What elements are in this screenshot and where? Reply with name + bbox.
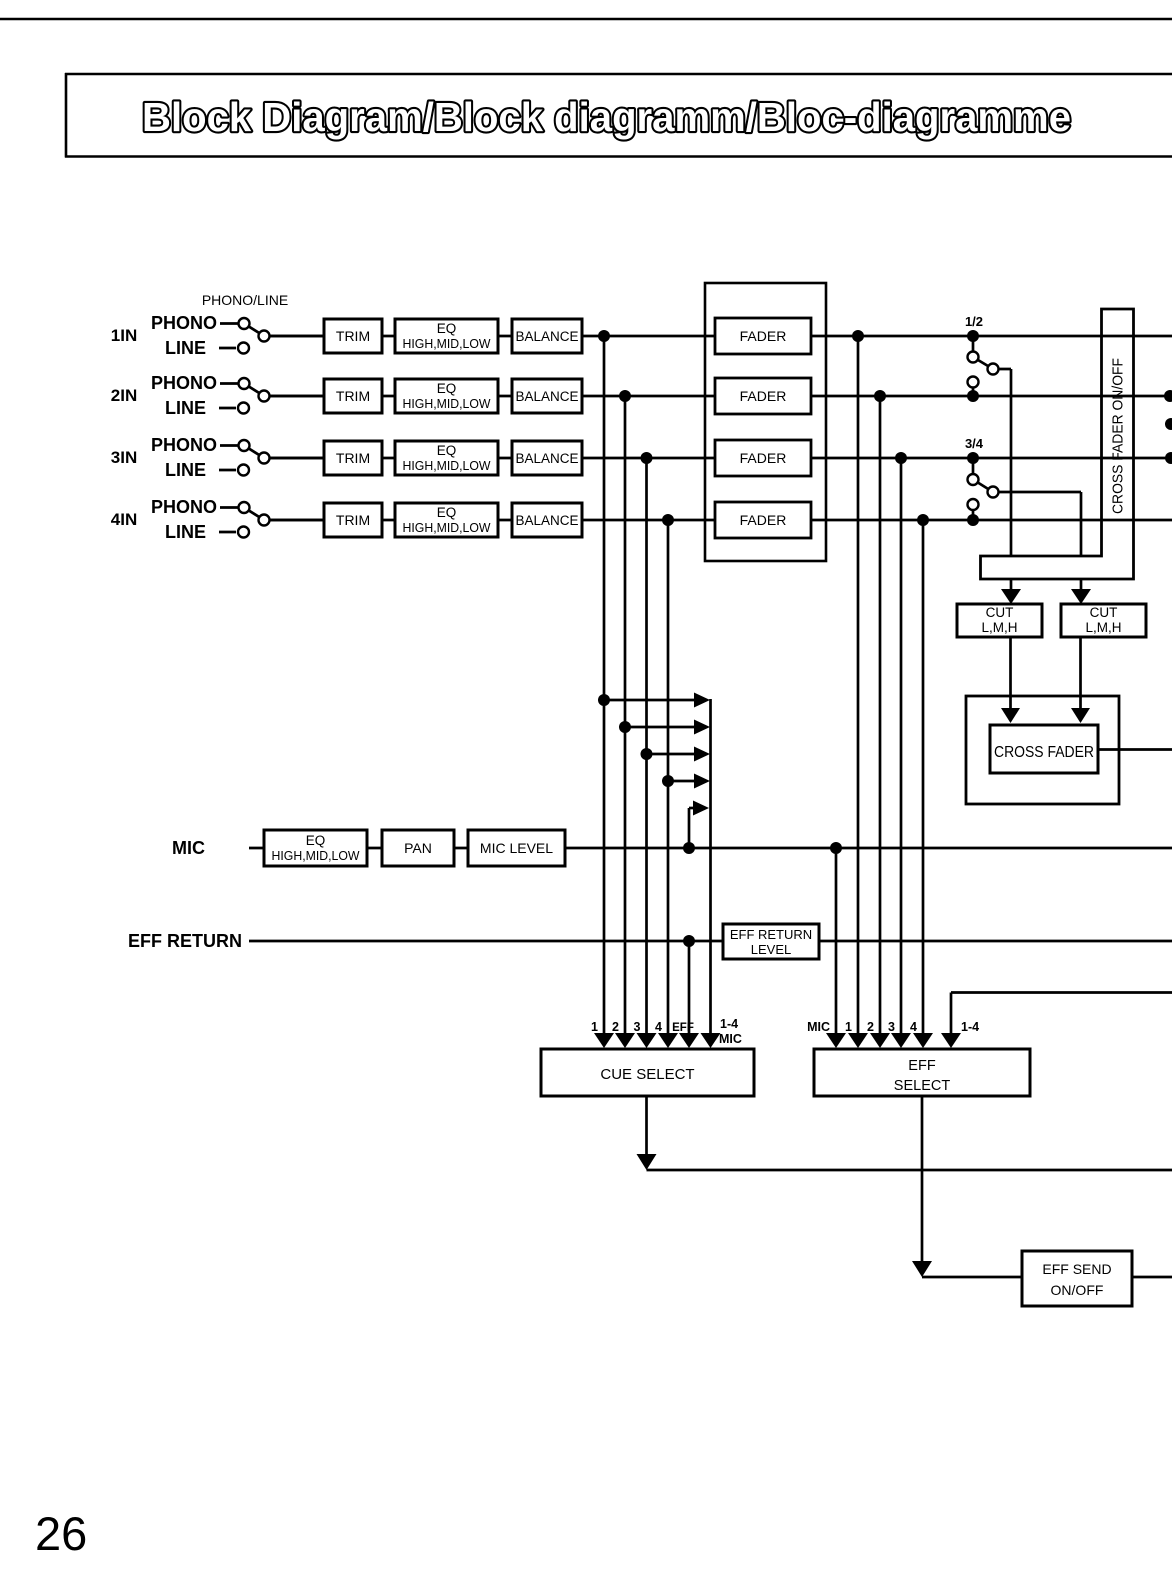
svg-text:1: 1 [845,1020,852,1034]
svg-text:PHONO/LINE: PHONO/LINE [202,292,288,308]
svg-text:PHONO: PHONO [151,373,217,393]
wire EFF RETURN [249,940,1172,943]
block EQ MIC [264,830,367,866]
block EQ 4 [395,503,498,537]
wire [269,395,324,398]
switch PHONO/LINE 4 [151,497,270,542]
pin eff MIC [807,1020,846,1048]
wire cue mix tap 4 [668,780,696,783]
svg-text:PHONO: PHONO [151,313,217,333]
pin cue EFF [672,1022,699,1048]
svg-text:SELECT: SELECT [894,1078,951,1094]
svg-text:FADER: FADER [740,328,787,344]
svg-text:HIGH,MID,LOW: HIGH,MID,LOW [403,458,492,473]
svg-text:4IN: 4IN [111,510,137,529]
switch 3/4 [965,436,1081,557]
wire cross fader out [1098,748,1172,751]
svg-text:1/2: 1/2 [965,314,983,329]
block CUE SELECT [541,1049,754,1096]
block EQ 1 [395,319,498,353]
svg-text:3: 3 [634,1020,641,1034]
wire MIC tap [835,848,838,1035]
wire channel 4 main [269,519,1172,522]
pin eff 3 [888,1020,911,1048]
pin cue 2 [612,1020,635,1048]
pin cue 1-4 MIC [701,1017,742,1048]
wire cut 1 feed [1001,579,1021,604]
junction cue tap 1 [598,330,610,342]
svg-text:BALANCE: BALANCE [515,329,578,344]
block PAN [382,830,454,866]
svg-text:FADER: FADER [740,512,787,528]
wire [269,335,324,338]
pin cue 4 [655,1020,678,1048]
wire eff select out [912,1096,1022,1277]
block CROSS FADER ON/OFF [981,309,1134,579]
svg-text:LEVEL: LEVEL [751,942,791,957]
svg-text:4: 4 [655,1020,662,1034]
wire cue mix tap 2 [625,726,696,729]
wire cue tap 4 [667,520,670,1035]
block EFF RETURN LEVEL [723,924,819,959]
svg-text:LINE: LINE [165,522,206,542]
block FADER 2 [715,378,811,414]
junction cue tap 4 [662,514,674,526]
svg-text:EFF RETURN: EFF RETURN [730,927,812,942]
svg-text:26: 26 [35,1507,87,1560]
svg-text:EFF: EFF [672,1022,694,1034]
svg-text:2IN: 2IN [111,386,137,405]
svg-text:EQ: EQ [437,443,457,458]
block cross fader group [966,696,1119,804]
junction eff tap 3 [895,452,907,464]
block EFF SEND ON/OFF [1022,1251,1132,1306]
wire channel 2 main [269,395,1172,398]
svg-text:EQ: EQ [306,833,326,848]
svg-text:HIGH,MID,LOW: HIGH,MID,LOW [403,336,492,351]
svg-text:TRIM: TRIM [336,328,370,344]
wire cut 2 feed [1071,579,1091,604]
block FADER 1 [715,318,811,354]
svg-text:EFF: EFF [908,1058,936,1074]
svg-text:2: 2 [867,1020,874,1034]
block BALANCE 4 [512,503,582,537]
wire cue 1-4 MIC bus [709,699,712,1035]
svg-text:PHONO: PHONO [151,497,217,517]
svg-text:1-4: 1-4 [961,1020,979,1034]
block BALANCE 3 [512,441,582,475]
wire cue mix tap 3 [647,753,697,756]
wire cue tap 2 [624,396,627,1035]
switch PHONO/LINE 1 [151,313,270,358]
block CUT L,M,H 2 [1061,604,1146,637]
junction cue tap 3 [641,452,653,464]
block EQ 2 [395,379,498,413]
svg-text:TRIM: TRIM [336,450,370,466]
svg-text:CUT: CUT [986,605,1014,620]
switch PHONO/LINE 3 [151,435,270,480]
pin eff 2 [867,1020,890,1048]
svg-text:BALANCE: BALANCE [515,513,578,528]
svg-text:CUE SELECT: CUE SELECT [600,1066,694,1083]
svg-text:HIGH,MID,LOW: HIGH,MID,LOW [403,396,492,411]
svg-text:FADER: FADER [740,450,787,466]
svg-text:L,M,H: L,M,H [1085,620,1121,635]
block TRIM 4 [324,503,382,537]
junction cue tap 2 [619,390,631,402]
svg-text:MIC: MIC [172,838,205,858]
svg-text:EFF SEND: EFF SEND [1042,1261,1111,1277]
junction right edge row2 [1164,390,1172,402]
svg-text:BALANCE: BALANCE [515,451,578,466]
svg-text:MIC LEVEL: MIC LEVEL [480,840,553,856]
svg-text:MIC: MIC [807,1020,830,1034]
block TRIM 1 [324,319,382,353]
junction eff tap 1 [852,330,864,342]
pin cue 3 [634,1020,657,1048]
wire [269,457,324,460]
wire [0,18,1172,21]
wire eff tap 2 [879,396,882,1035]
block TRIM 3 [324,441,382,475]
svg-text:1-4: 1-4 [720,1017,738,1031]
junction right edge row3 [1165,452,1172,464]
wire channel 3 main [269,457,1172,460]
svg-text:HIGH,MID,LOW: HIGH,MID,LOW [272,848,361,863]
block CUT L,M,H 1 [957,604,1042,637]
block EFF SELECT [814,1049,1030,1096]
wire MIC [249,847,1172,850]
block TRIM 2 [324,379,382,413]
block FADER 3 [715,440,811,476]
svg-text:2: 2 [612,1020,619,1034]
wire cue mix tap 1 [604,699,696,702]
block MIC LEVEL [468,830,565,866]
block CROSS FADER [990,725,1098,773]
wire eff tap 4 [922,520,925,1035]
svg-text:CUT: CUT [1090,605,1118,620]
svg-text:EQ: EQ [437,505,457,520]
pin cue 1 [591,1020,614,1048]
block BALANCE 1 [512,319,582,353]
svg-text:PAN: PAN [404,840,432,856]
svg-text:CROSS FADER: CROSS FADER [994,744,1094,761]
switch 1/2 [965,314,1011,557]
block EQ 3 [395,441,498,475]
svg-text:3IN: 3IN [111,448,137,467]
svg-text:1: 1 [591,1020,598,1034]
pin eff 1-4 [941,1020,979,1048]
svg-text:ON/OFF: ON/OFF [1051,1282,1104,1298]
wire channel 1 main [269,335,1172,338]
svg-text:LINE: LINE [165,460,206,480]
svg-text:PHONO: PHONO [151,435,217,455]
switch PHONO/LINE 2 [151,373,270,418]
svg-text:Block Diagram/Block diagramm/B: Block Diagram/Block diagramm/Bloc-diagra… [142,94,1071,140]
svg-text:1IN: 1IN [111,326,137,345]
wire EFF RETURN tap [683,935,695,1035]
svg-text:HIGH,MID,LOW: HIGH,MID,LOW [403,520,492,535]
wire cue select out [637,1096,1172,1170]
svg-text:3: 3 [888,1020,895,1034]
svg-text:3/4: 3/4 [965,436,984,451]
block fader group [705,283,826,561]
junction eff tap 2 [874,390,886,402]
svg-text:LINE: LINE [165,398,206,418]
pin eff 4 [910,1020,933,1048]
wire cut1 to cross fader [1001,637,1020,723]
junction right edge mid [1165,418,1172,430]
svg-text:4: 4 [910,1020,917,1034]
svg-text:L,M,H: L,M,H [981,620,1017,635]
pin eff 1 [845,1020,868,1048]
wire 1-4 feed [951,993,1172,1036]
svg-text:EQ: EQ [437,381,457,396]
wire [269,519,324,522]
svg-text:TRIM: TRIM [336,512,370,528]
wire eff send out [1132,1276,1172,1279]
svg-text:TRIM: TRIM [336,388,370,404]
svg-text:LINE: LINE [165,338,206,358]
svg-text:MIC: MIC [719,1032,742,1046]
block BALANCE 2 [512,379,582,413]
junction eff tap 4 [917,514,929,526]
wire eff tap 3 [900,458,903,1035]
svg-text:CROSS FADER ON/OFF: CROSS FADER ON/OFF [1111,358,1127,514]
wire cut2 to cross fader [1071,637,1090,723]
wire cue tap 3 [645,458,648,1035]
wire cue mix tap MIC [683,801,709,855]
wire eff tap 1 [857,336,860,1035]
block FADER 4 [715,502,811,538]
svg-text:FADER: FADER [740,388,787,404]
svg-text:BALANCE: BALANCE [515,389,578,404]
svg-text:EFF RETURN: EFF RETURN [128,931,242,951]
svg-text:EQ: EQ [437,321,457,336]
wire cue tap 1 [603,336,606,1035]
junction MIC line [830,842,842,854]
title box [65,73,1172,158]
